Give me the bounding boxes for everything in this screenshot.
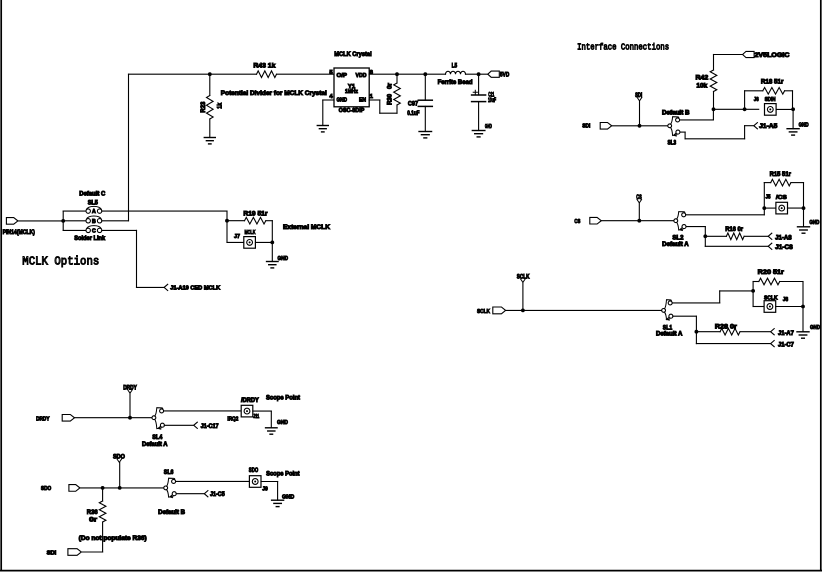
svg-text:IRQ2: IRQ2 [227, 417, 238, 423]
svg-text:SDI: SDI [47, 550, 57, 556]
svg-text:J5: J5 [766, 195, 772, 201]
svg-text:PIN14(MCLK): PIN14(MCLK) [3, 230, 35, 236]
svg-text:GND: GND [799, 123, 809, 129]
svg-text:4: 4 [329, 94, 333, 100]
svg-text:C: C [92, 229, 96, 235]
svg-text:SL5: SL5 [88, 200, 99, 206]
svg-text:SL4: SL4 [152, 435, 163, 441]
svg-text:Potential Divider for MCLK Cry: Potential Divider for MCLK Crystal [221, 90, 327, 97]
svg-text:GND: GND [282, 495, 294, 501]
svg-text:Interface Connections: Interface Connections [577, 41, 669, 52]
svg-text:Default B: Default B [158, 510, 185, 516]
svg-text:Default A: Default A [662, 242, 689, 248]
svg-text:MCLK Options: MCLK Options [22, 255, 99, 268]
svg-text:J1-A5: J1-A5 [759, 124, 778, 130]
svg-text:SDO: SDO [249, 468, 259, 474]
svg-text:/CS: /CS [776, 195, 787, 201]
svg-text:R20 51r: R20 51r [758, 269, 785, 276]
svg-text:SDO: SDO [41, 486, 52, 492]
svg-text:(Do not populate R36): (Do not populate R36) [79, 535, 147, 542]
svg-text:R19 51r: R19 51r [243, 210, 268, 217]
svg-text:B: B [92, 219, 96, 225]
svg-text:1MHz: 1MHz [345, 89, 358, 95]
svg-text:L5: L5 [452, 62, 458, 69]
svg-text:SL2: SL2 [672, 236, 684, 242]
svg-text:/DRDY: /DRDY [241, 398, 259, 404]
svg-text:5VD: 5VD [500, 72, 510, 79]
svg-text:10uF: 10uF [488, 97, 496, 104]
svg-text:8: 8 [370, 70, 374, 76]
svg-text:VDD: VDD [356, 73, 367, 79]
svg-text:2V5LOGIC: 2V5LOGIC [755, 52, 790, 59]
svg-text:R43 1k: R43 1k [253, 63, 276, 70]
svg-text:SDI: SDI [582, 124, 590, 130]
svg-text:J1-C7: J1-C7 [778, 342, 795, 348]
svg-text:Default A: Default A [142, 442, 168, 448]
svg-text:DRDY: DRDY [123, 385, 137, 391]
svg-text:GND: GND [277, 420, 288, 426]
svg-text:C97: C97 [408, 101, 419, 108]
svg-text:SL6: SL6 [164, 470, 174, 476]
svg-text:Ferrite Bead: Ferrite Bead [438, 79, 473, 86]
svg-text:SDO: SDO [113, 455, 125, 461]
svg-text:J9: J9 [262, 486, 268, 492]
svg-text:J7: J7 [234, 234, 240, 240]
svg-text:GND: GND [809, 220, 819, 226]
svg-text:GND: GND [278, 256, 289, 262]
svg-text:J11: J11 [253, 414, 260, 420]
svg-text:SCLK: SCLK [764, 295, 778, 301]
svg-text:1k: 1k [217, 102, 224, 108]
svg-text:Scope Point: Scope Point [266, 471, 300, 478]
svg-text:R15 51r: R15 51r [770, 171, 792, 178]
svg-text:R42: R42 [696, 74, 709, 81]
svg-text:J1-C17: J1-C17 [201, 424, 220, 430]
svg-text:GND: GND [810, 325, 820, 331]
svg-text:0r: 0r [89, 517, 98, 524]
svg-text:1: 1 [370, 94, 374, 100]
svg-text:0r: 0r [387, 82, 394, 89]
svg-text:J1-A8: J1-A8 [775, 235, 792, 241]
svg-text:R36: R36 [87, 509, 98, 516]
svg-text:R28 0r: R28 0r [715, 324, 738, 331]
svg-text:Default A: Default A [656, 332, 683, 338]
svg-text:J1-C5: J1-C5 [210, 492, 225, 498]
svg-text:O/P: O/P [337, 73, 348, 79]
svg-text:DRDY: DRDY [36, 417, 49, 423]
svg-text:Solder Link: Solder Link [74, 236, 106, 242]
svg-text:Scope Point: Scope Point [266, 395, 301, 402]
svg-text:SL1: SL1 [663, 325, 673, 331]
svg-text:Default C: Default C [79, 192, 106, 198]
svg-text:10k: 10k [696, 83, 707, 90]
svg-text:R23: R23 [200, 101, 207, 112]
svg-text:SCLK: SCLK [477, 309, 491, 315]
svg-text:J6: J6 [754, 97, 760, 103]
svg-text:CS: CS [574, 219, 580, 225]
svg-text:MCLK: MCLK [245, 230, 257, 236]
svg-text:GND: GND [337, 97, 348, 103]
svg-text:5: 5 [329, 70, 333, 76]
svg-text:R18 51r: R18 51r [761, 79, 784, 86]
svg-text:SDIN: SDIN [765, 97, 776, 103]
svg-text:SCLK: SCLK [517, 275, 530, 281]
svg-text:J1-A19 CED MCLK: J1-A19 CED MCLK [170, 286, 221, 292]
svg-text:J1-A7: J1-A7 [778, 331, 795, 337]
svg-text:External MCLK: External MCLK [283, 224, 330, 231]
svg-text:R16 0r: R16 0r [725, 226, 743, 233]
svg-text:R30: R30 [387, 93, 394, 104]
svg-text:EN: EN [359, 97, 366, 103]
svg-text:A: A [92, 209, 96, 215]
svg-text:MCLK Crystal: MCLK Crystal [334, 51, 372, 58]
svg-text:OSC-8DIP: OSC-8DIP [339, 108, 365, 114]
svg-text:GND: GND [485, 124, 492, 130]
svg-text:J8: J8 [783, 297, 789, 303]
svg-text:0.1uF: 0.1uF [407, 110, 420, 117]
svg-text:J1-C8: J1-C8 [775, 245, 793, 251]
svg-text:Default B: Default B [662, 111, 690, 117]
svg-text:SL3: SL3 [668, 140, 677, 146]
